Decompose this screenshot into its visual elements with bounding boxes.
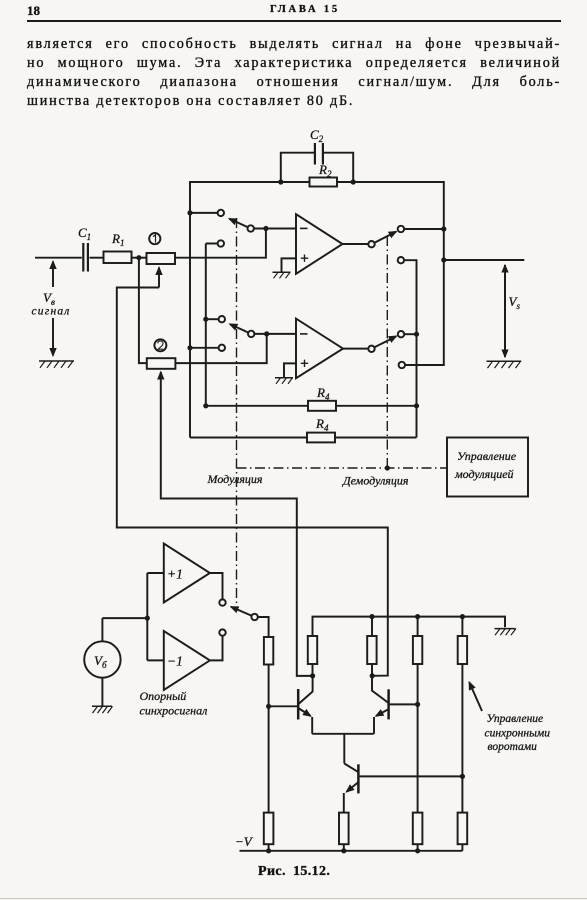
- svg-text:Vб: Vб: [94, 653, 107, 670]
- svg-text:воротами: воротами: [488, 741, 538, 753]
- svg-text:Демодуляция: Демодуляция: [342, 474, 409, 488]
- svg-text:Управление: Управление: [487, 713, 544, 725]
- svg-text:C1: C1: [78, 225, 91, 242]
- svg-text:−1: −1: [167, 654, 183, 669]
- svg-text:Vв: Vв: [43, 290, 55, 307]
- svg-text:Модуляция: Модуляция: [207, 472, 263, 486]
- svg-text:модуляцией: модуляцией: [454, 467, 514, 481]
- svg-text:синхросигнал: синхросигнал: [140, 704, 208, 718]
- svg-text:Управление: Управление: [457, 449, 517, 463]
- svg-text:R1: R1: [111, 231, 124, 248]
- svg-text:−V: −V: [235, 834, 254, 849]
- svg-text:R4: R4: [315, 416, 329, 433]
- svg-text:+1: +1: [167, 567, 183, 582]
- svg-text:C2: C2: [310, 127, 324, 144]
- svg-text:Vs: Vs: [509, 294, 521, 311]
- svg-text:Опорный: Опорный: [140, 689, 187, 703]
- svg-text:сигнал: сигнал: [32, 306, 71, 318]
- svg-text:R4: R4: [316, 385, 330, 402]
- svg-text:синхронными: синхронными: [485, 728, 551, 740]
- svg-text:R2: R2: [318, 162, 332, 179]
